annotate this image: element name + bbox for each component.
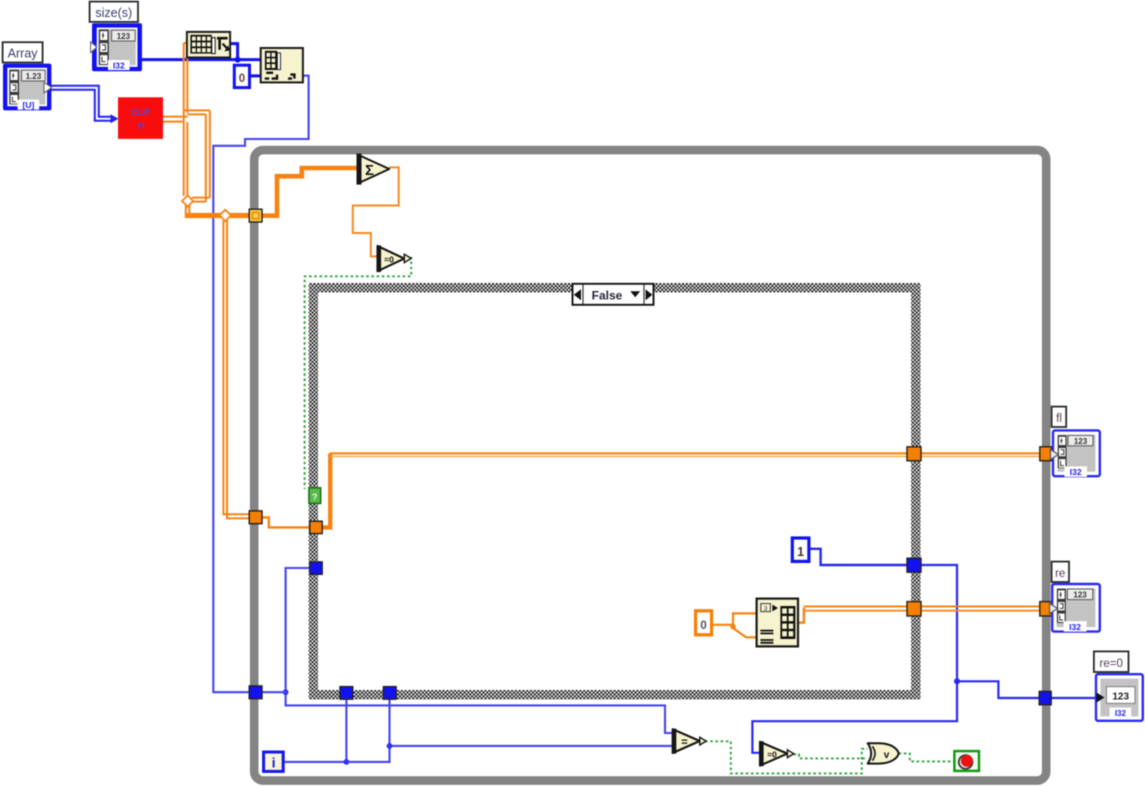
svg-text:size(s): size(s) — [95, 6, 132, 20]
svg-text:0: 0 — [700, 620, 706, 632]
tunnel: case left orange — [310, 521, 322, 533]
arrowhead into CLIP input — [111, 114, 119, 123]
constant: 0 (orange) — [696, 611, 712, 635]
svg-text:Σ: Σ — [365, 163, 374, 179]
tunnel: case right blue — [907, 558, 921, 572]
svg-text:=0: =0 — [384, 254, 394, 264]
svg-text:CLIP: CLIP — [131, 107, 150, 117]
wire: case tunnel to loop tunnel (re) — [921, 605, 1041, 607]
tunnel: loop left array (hollow) — [249, 209, 262, 222]
wire: long array run across case — [330, 452, 909, 454]
wire: constant 0 to Index Array — [249, 74, 261, 77]
function node: Index Array — [261, 48, 303, 82]
wire: equal node boolean to OR — [700, 741, 868, 773]
function node: Not Equal To 0? — [759, 741, 794, 766]
svg-text:I32: I32 — [113, 61, 125, 71]
svg-text:1.23: 1.23 — [26, 72, 42, 81]
wire: branch up into node input — [733, 613, 757, 626]
control terminal: Array (array of I32) — [3, 64, 52, 111]
function node: Rotate 1D Array — [757, 599, 798, 647]
function node: Equal To 0? — [377, 245, 412, 272]
case structure border — [313, 288, 915, 695]
wire: thick horizontal array run to loop tunnel — [185, 213, 252, 218]
control terminal: size(s) — [91, 23, 142, 71]
function node: Add Array Elements (sum) — [357, 154, 390, 185]
tunnel: case left blue — [310, 562, 322, 574]
wire: diamond1 down to thick run — [186, 206, 190, 215]
wire: case right tunnel to loop tunnel (fl) — [921, 452, 1041, 454]
svg-text:123: 123 — [1073, 591, 1087, 600]
wire: case-left blue tunnel down to bottom run and to equal node top input — [286, 568, 674, 733]
svg-text:I32: I32 — [1070, 467, 1082, 477]
diamond junction 1 — [182, 195, 193, 206]
wire: vertical pair along node1 left edge down to diamond junction — [183, 43, 185, 196]
wire: upper jog pair — [184, 109, 210, 111]
wire: loop tunnel to junction — [262, 691, 286, 693]
svg-text:I32: I32 — [1069, 622, 1081, 632]
svg-text:=0: =0 — [767, 749, 777, 759]
junction dot node1/size wire — [235, 57, 241, 63]
tunnel: loop left orange scalar — [249, 511, 262, 524]
junction dot orange — [730, 624, 735, 629]
tunnel: loop left blue — [249, 686, 262, 699]
indicator terminal: fl (I32 array) — [1050, 430, 1099, 477]
constant: 0 (blue) — [234, 65, 249, 87]
wire: case bottom tunnel A drop — [345, 699, 347, 762]
svg-text:0: 0 — [239, 73, 245, 85]
function node: Equal? — [672, 729, 706, 754]
wire: constant 1 to case-right blue tunnel — [809, 549, 908, 565]
svg-text:False: False — [592, 288, 623, 302]
svg-text:3: 3 — [764, 606, 768, 613]
tunnel: case right orange re — [907, 602, 921, 616]
svg-text:I32: I32 — [1115, 709, 1127, 718]
wire: =0 boolean to case selector — [305, 258, 412, 489]
wire: i terminal run to equal node lower input — [283, 746, 672, 762]
wire: Array terminal output (1D array, double blue line) to CLIP — [51, 86, 111, 121]
wire: not-equal-0 boolean to OR — [794, 754, 868, 758]
wire: constant 0 orange to rotate node — [712, 624, 733, 626]
label: re=0 — [1094, 651, 1129, 672]
wire: case bottom tunnel B drop — [388, 699, 390, 746]
wire: loop lower tunnel to case orange tunnel — [262, 517, 311, 527]
label: fl — [1052, 407, 1067, 427]
wire: case tunnel riser inside case — [322, 454, 331, 528]
svg-text:YI: YI — [137, 121, 145, 131]
tunnel: case right orange fl — [907, 447, 921, 461]
wire: branch diagonal into node lower input — [733, 628, 757, 637]
wire: stub into sort node input — [184, 42, 187, 44]
while loop frame — [254, 150, 1046, 781]
tunnel: case bottom blue B — [383, 687, 396, 700]
wire: Index Array output long thin blue down left side into loop tunnel — [213, 76, 308, 693]
wire: size(s) output to Index Array node — [142, 58, 261, 61]
svg-text:fl: fl — [1056, 413, 1062, 425]
wire: loop tunnel to re=0 indicator — [1051, 697, 1097, 699]
tunnel: case bottom blue A — [340, 687, 353, 700]
label: Array — [3, 42, 43, 62]
wire: case-right blue tunnel to right side down — [752, 565, 957, 753]
label: re — [1052, 562, 1069, 582]
junction dot i wire B — [387, 743, 393, 749]
tunnel: case selector terminal — [309, 488, 321, 504]
junction dot right — [954, 678, 960, 684]
tunnel: loop right orange re — [1040, 602, 1052, 616]
tunnel: loop right orange fl — [1040, 447, 1052, 461]
svg-text:re: re — [1055, 568, 1065, 580]
svg-text:i: i — [272, 756, 276, 771]
svg-text:=: = — [681, 737, 687, 749]
tunnel: loop right blue — [1039, 691, 1051, 704]
wire: rotate node output pair to case tunnel — [798, 608, 804, 623]
svg-text:v: v — [884, 750, 890, 761]
loop conditional stop terminal — [954, 751, 979, 771]
junction dot i wire A — [344, 759, 350, 765]
wire: vertical pair from diamond2 down to lower loop tunnel — [223, 221, 250, 519]
diamond junction 2 — [220, 210, 231, 221]
case selector label box — [573, 284, 654, 305]
constant: 1 (blue) — [792, 538, 809, 561]
svg-text:?: ? — [312, 492, 318, 502]
svg-text:1: 1 — [797, 545, 804, 559]
function node: Or — [868, 743, 899, 763]
iteration terminal i — [264, 752, 284, 771]
wire: sum output scalar to =0 node — [353, 167, 399, 256]
indicator terminal: re=0 (scalar I32) — [1096, 674, 1143, 721]
wire: junction to loop blue tunnel to re=0 indicator — [957, 681, 1040, 698]
function node: sort/size 1D array — [187, 32, 230, 58]
svg-text:[U]: [U] — [22, 100, 34, 110]
wire: OR output to loop stop terminal — [899, 753, 954, 761]
subVI: CLIP YI (red) — [118, 97, 163, 139]
svg-text:re=0: re=0 — [1100, 658, 1123, 670]
label: size(s) — [90, 2, 138, 22]
svg-text:Array: Array — [8, 47, 39, 61]
wire: CLIP output pair to vertical — [163, 43, 210, 202]
svg-text:123: 123 — [1074, 437, 1088, 446]
junction dot left bottom — [283, 689, 289, 695]
svg-text:123: 123 — [117, 32, 131, 41]
indicator terminal: re (I32 array) — [1050, 584, 1100, 632]
wire: thick array run inside loop to sum node — [260, 168, 357, 216]
wire: sort node output down to junction — [230, 44, 238, 58]
wire: second vertical pair — [205, 114, 207, 201]
wire: lower jog pair into diamond — [192, 197, 210, 199]
svg-text:123: 123 — [1112, 692, 1129, 703]
